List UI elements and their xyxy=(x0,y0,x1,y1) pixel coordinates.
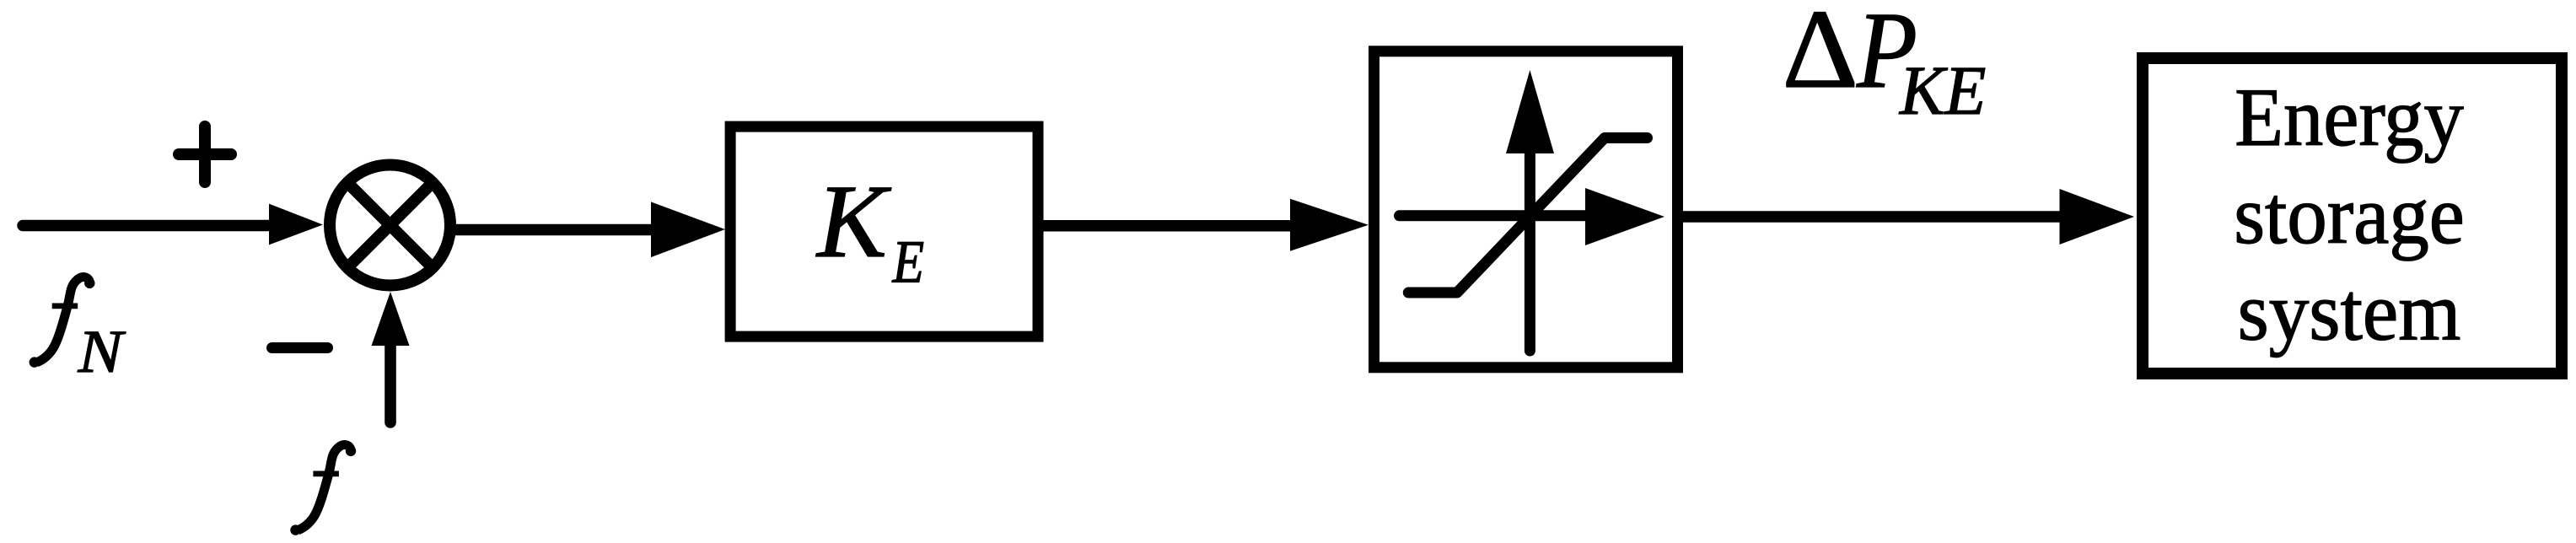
svg-text:K: K xyxy=(815,164,892,279)
label dP_KE xyxy=(1783,0,1987,129)
wire: input line into summing junction xyxy=(23,220,274,232)
block: limiter (saturation) box xyxy=(1374,51,1678,368)
svg-text:storage: storage xyxy=(2234,169,2465,261)
label minus sign xyxy=(272,342,328,353)
svg-text:system: system xyxy=(2238,266,2461,358)
arrowhead into limiter xyxy=(1290,199,1369,251)
wire: vertical feedback arrow into summing junction xyxy=(385,340,396,422)
wire: limiter to energy storage system xyxy=(1682,211,2062,223)
limiter horizontal axis xyxy=(1400,210,1590,221)
arrowhead into gain block xyxy=(651,202,725,257)
wire: gain block to limiter xyxy=(1043,220,1294,232)
label f (feedback) xyxy=(290,445,356,535)
label K_E xyxy=(815,164,924,296)
block K_E gain box xyxy=(730,126,1038,336)
svg-text:N: N xyxy=(78,318,126,385)
arrowhead into summing junction xyxy=(269,204,323,245)
node: summing junction circle xyxy=(330,165,450,286)
svg-text:Δ: Δ xyxy=(1783,0,1859,111)
limiter vertical axis arrowhead xyxy=(1506,70,1554,153)
svg-text:KE: KE xyxy=(1899,51,1986,129)
block: energy storage system box xyxy=(2143,58,2562,374)
label Energy storage system xyxy=(2234,72,2465,358)
label f_N xyxy=(30,277,126,385)
limiter saturation curve xyxy=(1408,138,1647,293)
limiter horizontal axis arrowhead xyxy=(1585,188,1664,245)
summing junction X cross xyxy=(347,182,433,267)
arrowhead into energy storage system xyxy=(2060,189,2135,245)
label + (plus sign) xyxy=(179,126,231,182)
svg-text:E: E xyxy=(892,228,924,296)
limiter vertical axis xyxy=(1525,152,1535,351)
svg-text:Energy: Energy xyxy=(2235,72,2464,164)
arrowhead up into summing junction xyxy=(372,292,410,346)
wire: summing junction to gain block xyxy=(455,224,653,236)
